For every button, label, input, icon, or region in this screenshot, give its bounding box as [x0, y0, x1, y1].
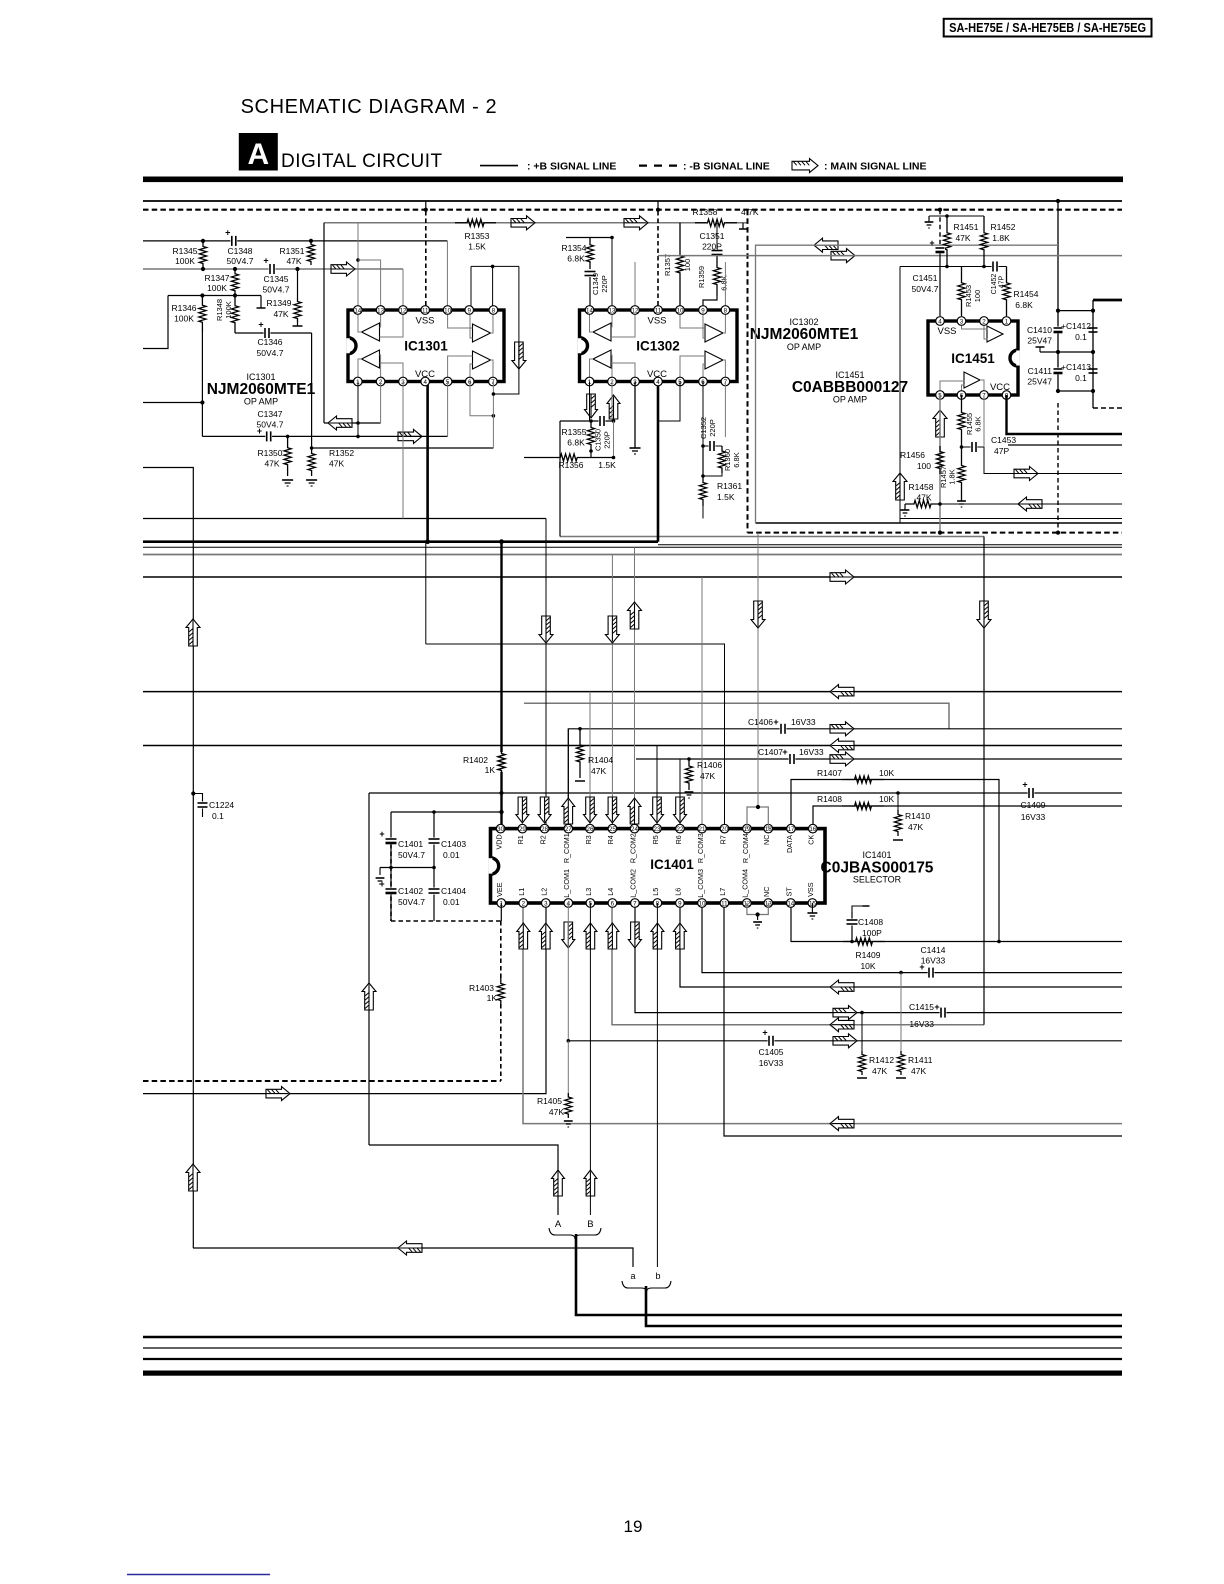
svg-text:47K: 47K [700, 771, 715, 781]
wire pin12 stub IC1302 [634, 262, 636, 306]
capacitor C1413 [1088, 368, 1098, 375]
wire bus y728 C1406 line [568, 729, 1122, 828]
capacitor C1414 [928, 967, 935, 978]
svg-text:14: 14 [354, 307, 361, 314]
svg-text:NJM2060MTE1: NJM2060MTE1 [750, 326, 859, 343]
svg-text:+: + [773, 717, 778, 727]
resistor R1351 [307, 241, 314, 265]
capacitor C1352 [703, 445, 722, 447]
svg-text:OP AMP: OP AMP [244, 397, 278, 407]
header model box [944, 19, 1152, 37]
bracket pins 19 18 [747, 807, 768, 829]
signal arrow up A wire [552, 1170, 565, 1196]
svg-text:2: 2 [982, 318, 986, 325]
wire bus y759 C1407 line [636, 758, 1122, 760]
svg-text:50V4.7: 50V4.7 [398, 850, 425, 860]
wire box edge x369 [368, 793, 370, 1145]
wire R5 feed x657 [656, 746, 658, 829]
svg-text:C1414: C1414 [920, 945, 945, 955]
wire IC1301 pin5 down [447, 382, 449, 437]
svg-text:+: + [762, 1027, 767, 1037]
legend -B signal line [639, 165, 677, 167]
svg-text:C1348: C1348 [227, 246, 252, 256]
wire x984 column [983, 537, 985, 1025]
svg-text:C1224: C1224 [209, 800, 234, 810]
wire bus y987 [680, 903, 1122, 987]
svg-text:47K: 47K [591, 766, 606, 776]
wire x426 below IC1301 [425, 542, 427, 644]
svg-text:SELECTOR: SELECTOR [853, 875, 902, 885]
wire bus y544 right [658, 544, 1122, 546]
wire R_COM3 feed x702 [701, 577, 703, 828]
svg-text:R1411: R1411 [908, 1055, 933, 1065]
svg-text:4: 4 [656, 379, 660, 386]
capacitor C1407 [789, 754, 796, 765]
wire bus y547 [143, 546, 1122, 548]
signal arrow right y577 [830, 570, 854, 584]
signal arrow left y987 [830, 980, 854, 994]
wire link y644 [426, 643, 725, 645]
svg-text:L7: L7 [718, 888, 727, 896]
capacitor C1349 [584, 270, 596, 277]
svg-text:+: + [379, 829, 384, 839]
wire IC1301 pin3 down [402, 382, 404, 519]
svg-text:11: 11 [422, 307, 429, 314]
capacitor C1451 [939, 210, 941, 246]
resistor R1410 [896, 791, 900, 795]
svg-text:1.5K: 1.5K [598, 460, 616, 470]
selector IC1401 body [491, 829, 826, 903]
svg-text:R1452: R1452 [990, 222, 1015, 232]
wire IC1451 pin8 VCC down [1007, 395, 1123, 434]
capacitor C1411 [1053, 368, 1063, 375]
wire feedback x900 [899, 267, 901, 524]
svg-text:+: + [934, 1002, 939, 1012]
svg-text:C1347: C1347 [257, 409, 282, 419]
svg-text:47K: 47K [908, 822, 923, 832]
svg-text:C1408: C1408 [858, 917, 883, 927]
legend main signal line arrow [792, 159, 818, 173]
svg-text:NC: NC [762, 835, 771, 845]
wire R1407 line y779 [791, 780, 999, 942]
svg-text:R1351: R1351 [279, 246, 304, 256]
resistor R1403 [497, 978, 504, 1006]
wire bus y745 [143, 745, 1122, 747]
ground mid y352 [1040, 351, 1093, 353]
svg-text:6.8K: 6.8K [974, 416, 983, 431]
resistor R1350 [284, 436, 291, 476]
svg-text:A: A [555, 1219, 562, 1230]
svg-text:+: + [258, 320, 263, 330]
wire R1409 line y941 [791, 903, 1122, 942]
wire IC1302 pin6 down [702, 382, 704, 447]
svg-text:R_COM4: R_COM4 [741, 833, 750, 863]
resistor R1452 [980, 216, 987, 267]
svg-text:220P: 220P [603, 431, 612, 449]
legend +B signal line [480, 165, 518, 167]
ground IC1302 pin3 [634, 382, 636, 449]
wire bus y1136 [724, 903, 1122, 1136]
wire gray bus y536 [560, 536, 984, 538]
svg-text:17: 17 [788, 826, 795, 833]
resistor R1457 [958, 447, 965, 501]
svg-text:R1359: R1359 [697, 266, 706, 288]
wire bus y1248 [193, 1248, 633, 1267]
dashed box IC1451 left edge [747, 210, 749, 533]
svg-text:VSS: VSS [806, 882, 815, 897]
svg-text:R1358: R1358 [692, 207, 717, 217]
svg-text:20: 20 [721, 826, 728, 833]
svg-text:+C1413: +C1413 [1061, 362, 1091, 372]
svg-text:R1410: R1410 [905, 811, 930, 821]
wire pin10 feed [446, 241, 448, 306]
svg-text:0.1: 0.1 [212, 811, 224, 821]
svg-text:47K: 47K [955, 233, 970, 243]
wire b feed [656, 1266, 658, 1268]
svg-text:NC: NC [762, 887, 771, 897]
svg-text:R6: R6 [674, 835, 683, 844]
signal arrow down x546 [539, 616, 553, 643]
resistor R1346 [199, 296, 206, 333]
resistor R1358 [695, 219, 737, 226]
op-amp IC1301 amp D [473, 351, 491, 369]
svg-text:12: 12 [400, 307, 407, 314]
svg-text:100K: 100K [207, 283, 227, 293]
wire R6 feed x680 [679, 759, 681, 828]
svg-text:+: + [225, 227, 230, 237]
signal arrow left y691 [830, 685, 854, 699]
svg-text:220P: 220P [600, 275, 609, 293]
svg-text:R1404: R1404 [588, 755, 613, 765]
svg-text:R1: R1 [516, 835, 525, 844]
wire IC1301 pin7 down [492, 382, 494, 449]
wire bus y1040 C1405 line [569, 1040, 1122, 1042]
resistor R1402 [498, 750, 505, 774]
svg-text:1K: 1K [487, 993, 498, 1003]
wire y255 gray [658, 255, 1122, 257]
signal arrows above IC1401 [516, 797, 529, 823]
op-amp IC1301 body [348, 310, 504, 382]
svg-text:50V4.7: 50V4.7 [257, 420, 284, 430]
wire y504 out [940, 503, 1122, 505]
wire y812 row [391, 811, 502, 813]
wire bus y523 [756, 522, 1123, 524]
wire IC1302 pin5 down [658, 382, 680, 422]
op-amp IC1301 amp A [362, 323, 380, 341]
svg-text:16V33: 16V33 [921, 956, 946, 966]
svg-text:: +B SIGNAL LINE: : +B SIGNAL LINE [527, 161, 616, 173]
op-amp IC1451 body [928, 321, 1018, 395]
signal arrow right y473 [1014, 467, 1038, 481]
signal arrow left y1248 [398, 1241, 422, 1255]
svg-text:11: 11 [655, 307, 662, 314]
svg-text:C1401: C1401 [398, 839, 423, 849]
wire right box x1093 [1092, 300, 1094, 408]
pins IC1301 bottom [354, 377, 363, 386]
resistor R1407 [842, 776, 884, 783]
signal arrow down x518 IC1301 right [512, 342, 526, 369]
resistor R1404 [578, 727, 582, 731]
svg-text:6: 6 [611, 900, 615, 907]
svg-text:8: 8 [492, 307, 496, 314]
svg-text:R1345: R1345 [172, 246, 197, 256]
svg-text:R_COM1: R_COM1 [562, 833, 571, 863]
signal arrows below IC1401 [517, 923, 530, 949]
signal arrow right y1040 [833, 1034, 857, 1048]
signal arrow up x193 upper [186, 619, 200, 646]
wire R2 feed x546 [545, 519, 547, 829]
svg-text:22: 22 [677, 826, 684, 833]
capacitor C1404 [433, 868, 435, 889]
svg-text:50V4.7: 50V4.7 [263, 285, 290, 295]
resistor R1455 [958, 395, 965, 447]
svg-text:C1351: C1351 [699, 231, 724, 241]
svg-text:R1348: R1348 [215, 299, 224, 321]
capacitor C1452 [992, 261, 999, 272]
svg-text:L1: L1 [517, 888, 526, 896]
svg-text:47K: 47K [911, 1066, 926, 1076]
svg-text:R_COM2: R_COM2 [628, 833, 637, 863]
resistor R1453 [958, 267, 965, 317]
svg-text:R1406: R1406 [697, 760, 722, 770]
svg-text:VEE: VEE [495, 882, 504, 897]
svg-text:9: 9 [467, 307, 471, 314]
svg-text:14: 14 [787, 900, 794, 907]
svg-text:VDD: VDD [494, 834, 503, 849]
wire bus y972 [702, 903, 1122, 973]
signal arrow left y245 [814, 238, 838, 252]
svg-text:C1410: C1410 [1027, 325, 1052, 335]
svg-text:6.8K: 6.8K [567, 254, 585, 264]
wire thick bus y542 [143, 540, 658, 543]
svg-text:R1456: R1456 [900, 450, 925, 460]
svg-text:L2: L2 [540, 888, 549, 896]
wire VDD supply column x501 [500, 542, 502, 752]
wire bus y1093 [143, 903, 546, 1094]
svg-text:R1361: R1361 [717, 481, 742, 491]
svg-text:1.5K: 1.5K [717, 492, 735, 502]
signal arrow left y1024 [830, 1018, 854, 1032]
capacitor C1347 [265, 431, 272, 442]
svg-text:R1347: R1347 [204, 273, 229, 283]
svg-text:R5: R5 [651, 835, 660, 844]
svg-text:R4: R4 [606, 835, 615, 844]
top border thick bar [143, 177, 1123, 183]
svg-text:25V47: 25V47 [1027, 336, 1052, 346]
signal arrow left y423 [328, 416, 352, 430]
wire y421 row [560, 420, 614, 422]
wire A-link y1145 [369, 1145, 558, 1215]
svg-text:C1352: C1352 [699, 417, 708, 439]
resistor R1357 [676, 223, 683, 306]
capacitor C1346 [235, 332, 312, 334]
wire IC1301 pin6 down [470, 382, 493, 416]
signal arrow right y269 [331, 262, 355, 276]
svg-text:R1407: R1407 [817, 768, 842, 778]
svg-text:R1408: R1408 [817, 794, 842, 804]
resistor R1412 [860, 1011, 864, 1015]
capacitor C1345 [269, 264, 276, 275]
resistor R1406 [687, 757, 691, 761]
resistor R1349 [297, 269, 299, 298]
svg-text:R2: R2 [538, 835, 547, 844]
pins IC1302 bottom [585, 377, 594, 386]
svg-text:C1451: C1451 [912, 273, 937, 283]
capacitor C1405 [768, 1035, 775, 1046]
wire R3 feed x590 [589, 692, 591, 828]
wire C1410 column x1058 [1057, 201, 1059, 391]
svg-text:C1407: C1407 [758, 747, 783, 757]
signal arrow up x900 [893, 473, 907, 500]
ground IC1401 VSS [811, 903, 813, 913]
capacitor C1408 [852, 906, 866, 912]
wire y216 [929, 215, 984, 217]
svg-text:26: 26 [587, 826, 594, 833]
svg-text:50V4.7: 50V4.7 [912, 284, 939, 294]
op-amp IC1302 amp B [705, 324, 723, 342]
resistor R1353 [455, 219, 496, 226]
svg-text:C1406: C1406 [748, 717, 773, 727]
svg-text:47K: 47K [264, 459, 279, 469]
svg-text:47K: 47K [872, 1066, 887, 1076]
resistor R1360 [718, 446, 725, 473]
svg-text:1: 1 [1005, 318, 1009, 325]
op-amp IC1302 amp C [593, 350, 611, 368]
pins IC1401 top row [496, 824, 505, 833]
resistor R1359 [713, 256, 720, 296]
wire IC1451 pin5 down [939, 395, 941, 533]
svg-text:VSS: VSS [415, 316, 434, 327]
svg-text:0.1: 0.1 [1075, 373, 1087, 383]
signal arrow down x984 [977, 601, 991, 628]
svg-text:16: 16 [809, 826, 816, 833]
svg-text:+: + [263, 256, 268, 266]
svg-text:IC1401: IC1401 [650, 857, 694, 872]
svg-text:50V4.7: 50V4.7 [257, 348, 284, 358]
svg-text:6.8K: 6.8K [720, 275, 729, 290]
svg-text:13: 13 [609, 307, 616, 314]
wire y867 row [380, 867, 434, 869]
svg-text:IC1401: IC1401 [862, 850, 891, 860]
signal arrow left y745 [830, 739, 854, 753]
signal arrow right y255 [831, 249, 855, 263]
wire dashed box bottom y532 [748, 532, 1123, 534]
svg-text:L_COM4: L_COM4 [741, 869, 750, 898]
svg-text:100: 100 [973, 290, 982, 303]
signal arrow down IC1302 pin1 [585, 394, 598, 418]
svg-text:C1346: C1346 [257, 337, 282, 347]
svg-text:28: 28 [541, 826, 548, 833]
svg-text:R1360: R1360 [723, 449, 732, 471]
svg-text:10K: 10K [879, 768, 894, 778]
svg-text:16V33: 16V33 [759, 1058, 784, 1068]
wire bus y518 right [900, 518, 1122, 520]
capacitor C1410 [1053, 327, 1063, 334]
capacitor C1402 [390, 868, 392, 889]
svg-text:R1412: R1412 [869, 1055, 894, 1065]
svg-text:OP AMP: OP AMP [787, 342, 821, 352]
svg-text:C0ABBB000127: C0ABBB000127 [792, 379, 908, 396]
op-amp IC1302 body [580, 310, 738, 382]
svg-text:R1403: R1403 [469, 983, 494, 993]
pins IC1451 top [936, 317, 945, 326]
svg-text:C1453: C1453 [991, 435, 1016, 445]
solid box IC1451 [756, 245, 1059, 523]
wire IC1301 pin2 down [380, 382, 382, 424]
svg-text:1K: 1K [485, 765, 496, 775]
capacitor C1415 [940, 1007, 947, 1018]
svg-text:14: 14 [586, 307, 593, 314]
footer blue rule [127, 1574, 270, 1576]
wire IC1301 pin11 dashed column [425, 201, 427, 211]
svg-text:2: 2 [522, 900, 526, 907]
capacitor C1453 row [962, 446, 985, 448]
wire IC1302 pin7 stub [724, 382, 726, 438]
svg-text:100: 100 [917, 461, 931, 471]
svg-text:+: + [1022, 780, 1027, 790]
resistor R1345 [199, 241, 206, 269]
svg-text:1.8K: 1.8K [948, 469, 957, 484]
resistor R1356 [524, 454, 614, 461]
svg-text:SA-HE75E / SA-HE75EB / SA-HE75: SA-HE75E / SA-HE75EB / SA-HE75EG [949, 20, 1146, 35]
svg-text:8: 8 [724, 307, 728, 314]
svg-text:: MAIN SIGNAL LINE: : MAIN SIGNAL LINE [824, 161, 926, 173]
dashed box IC1401 left [390, 844, 392, 921]
svg-text:: -B SIGNAL LINE: : -B SIGNAL LINE [683, 161, 770, 173]
svg-text:+C1412: +C1412 [1061, 321, 1091, 331]
svg-text:R_COM3: R_COM3 [696, 833, 705, 863]
resistor R1411 [899, 971, 903, 975]
svg-text:100K: 100K [224, 301, 233, 319]
svg-text:L5: L5 [651, 888, 660, 896]
pins IC1401 bottom row [497, 899, 506, 908]
svg-text:L_COM1: L_COM1 [562, 869, 571, 898]
bottom rule 2 [143, 1347, 1122, 1349]
wire output A y1315 [576, 1234, 1122, 1315]
svg-text:19: 19 [624, 1517, 643, 1536]
svg-text:100K: 100K [174, 314, 194, 324]
resistor R1454 [1003, 267, 1010, 317]
resistor R1456 [936, 446, 943, 474]
pins IC1451 bottom [936, 391, 945, 400]
wire R_COM4 feed x758 [757, 533, 759, 807]
wire VEE down [500, 903, 502, 921]
wire row y269 [143, 268, 403, 270]
svg-text:R1405: R1405 [537, 1096, 562, 1106]
wire bus y691 [143, 691, 1122, 693]
svg-text:6.8K: 6.8K [732, 452, 741, 467]
svg-text:220P: 220P [702, 242, 722, 252]
resistor R1409 [843, 938, 885, 945]
svg-text:C1411: C1411 [1028, 366, 1053, 376]
svg-text:C1403: C1403 [441, 839, 466, 849]
svg-text:R1451: R1451 [953, 222, 978, 232]
wire y391 link [1058, 390, 1093, 392]
svg-text:1.8K: 1.8K [992, 233, 1010, 243]
svg-text:4.7K: 4.7K [741, 207, 759, 217]
section label A [239, 133, 278, 171]
signal arrow left y1123 [830, 1117, 854, 1131]
wire feedback y423 [324, 422, 381, 424]
op-amp IC1302 amp D [705, 351, 723, 369]
wire bus y1012 [635, 903, 1122, 1013]
signal arrow up B wire [584, 1170, 597, 1196]
svg-text:OP AMP: OP AMP [833, 395, 867, 405]
svg-text:VSS: VSS [647, 316, 666, 327]
wire output B y1326 [646, 1286, 1122, 1326]
signal arrow right y223 b [624, 216, 648, 230]
capacitor C1401 [390, 812, 392, 838]
